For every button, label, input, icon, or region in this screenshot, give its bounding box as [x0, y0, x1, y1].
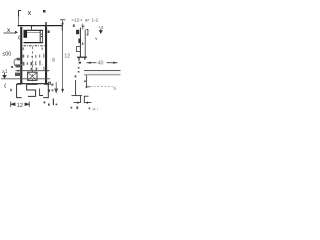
cistern inner shade line	[27, 32, 40, 34]
secondary dim line	[55, 82, 58, 93]
svg-text:b: b	[52, 58, 55, 64]
svg-text:12: 12	[17, 103, 23, 109]
frame bottom bar	[17, 83, 49, 85]
outlet dim right arrow	[113, 62, 117, 64]
outlet flange cross	[28, 73, 36, 80]
side small label	[84, 81, 86, 83]
side view filling valve blob	[76, 30, 79, 34]
bottom dimension right arrow	[25, 102, 29, 108]
corner bracket bottom right	[84, 96, 88, 103]
left arrowhead	[16, 70, 19, 72]
side view top mark	[82, 24, 85, 30]
side view front face	[79, 28, 81, 58]
centre dashed axis	[32, 47, 34, 84]
floor slab fill	[84, 71, 121, 75]
right tick under dashes	[41, 48, 43, 51]
side valve lower blob	[78, 39, 81, 44]
cistern box top	[24, 29, 44, 31]
side pipe cross	[72, 95, 83, 97]
right rail side dot 2	[52, 89, 54, 91]
left rail fitting 2	[16, 64, 20, 67]
svg-text:> :: > :	[93, 107, 99, 113]
svg-text:x: x	[28, 10, 32, 17]
top-left dimension arrow mark	[19, 11, 22, 17]
left extension line	[18, 17, 20, 27]
side foot	[77, 57, 87, 60]
cistern right wall	[39, 31, 41, 43]
below-floor extension	[86, 75, 88, 88]
dashed line under cistern	[24, 45, 47, 47]
dotted cross line	[21, 64, 45, 66]
small dim line left	[74, 102, 81, 104]
hose curve mark	[14, 59, 17, 66]
frame left rail	[20, 27, 22, 84]
outlet flange	[28, 72, 37, 80]
height dim bottom arrow	[61, 89, 64, 93]
arrow mark left of rail	[15, 31, 18, 34]
bracket mark on left rail	[18, 36, 21, 40]
bottom dimension left arrow	[11, 102, 15, 108]
frame right rail	[45, 27, 47, 84]
fitting marks row 1	[23, 54, 45, 58]
small tick right	[96, 38, 97, 40]
fitting marks row 3	[31, 67, 45, 71]
top edge line	[18, 25, 63, 27]
left foot channel	[17, 84, 22, 97]
tolerance arrow	[99, 29, 102, 33]
faint leader line	[90, 86, 113, 88]
tick on top line	[31, 26, 33, 30]
bottom right dots	[71, 106, 91, 109]
left rail fitting 1	[17, 58, 20, 61]
floor slab top line	[84, 70, 121, 72]
end tick of top line	[61, 24, 63, 31]
outlet dim left arrow	[87, 62, 91, 64]
small dim line right	[85, 102, 91, 104]
svg-text:12: 12	[64, 53, 70, 59]
svg-text:≈12-• a• 1-2: ≈12-• a• 1-2	[72, 17, 99, 22]
side wall bracket	[87, 29, 88, 36]
side foot marks	[79, 62, 81, 64]
outlet pipe bend	[27, 84, 38, 96]
cistern box bottom	[24, 42, 44, 44]
stray dot left of outlet	[10, 89, 12, 91]
side flush pipe bracket	[77, 47, 81, 52]
fitting marks row 2	[23, 61, 41, 66]
outlet dimension line left	[87, 62, 97, 64]
right foot channel	[43, 84, 48, 97]
bottom small marks	[44, 99, 58, 106]
height dim top arrow	[61, 21, 63, 24]
right rail stub	[48, 30, 50, 33]
side tick right	[88, 86, 90, 88]
tertiary dim arrow	[48, 90, 50, 93]
svg-text:40: 40	[98, 61, 104, 67]
floor slab bottom line	[84, 74, 121, 76]
panel front line	[80, 96, 82, 103]
hose end dot	[11, 66, 13, 68]
height dimension line	[62, 21, 64, 93]
svg-text:≤: ≤	[114, 85, 117, 91]
left rail fitting 3	[15, 73, 20, 76]
height dim top bar	[60, 19, 65, 21]
floor level arrow	[3, 73, 6, 79]
outlet dimension line right	[107, 62, 118, 64]
side pipe vertical	[75, 80, 77, 96]
right arrowhead	[46, 70, 49, 72]
small dim arrow left-pointing	[85, 102, 88, 104]
floor line	[1, 78, 50, 80]
left margin underline	[4, 32, 16, 34]
below-floor arrow	[85, 85, 88, 88]
cistern fill valve block	[24, 31, 28, 38]
right rail side dots	[51, 84, 53, 86]
width dimension line	[16, 70, 50, 72]
top small square mark	[43, 10, 46, 13]
left tick under dashes	[22, 48, 24, 51]
fixing rod	[40, 89, 43, 96]
left parenthesis mark	[4, 84, 7, 89]
svg-text:≤00: ≤00	[2, 51, 11, 57]
side view rear face	[84, 30, 86, 58]
cistern right bracket	[41, 31, 43, 43]
inner arrow mark	[82, 42, 84, 45]
side lower dots	[75, 67, 80, 77]
small mark left of profile	[73, 24, 75, 27]
small dim arrow right-pointing	[77, 102, 80, 104]
anchor tick at right rail	[45, 22, 47, 28]
tertiary dim flag	[48, 82, 50, 86]
